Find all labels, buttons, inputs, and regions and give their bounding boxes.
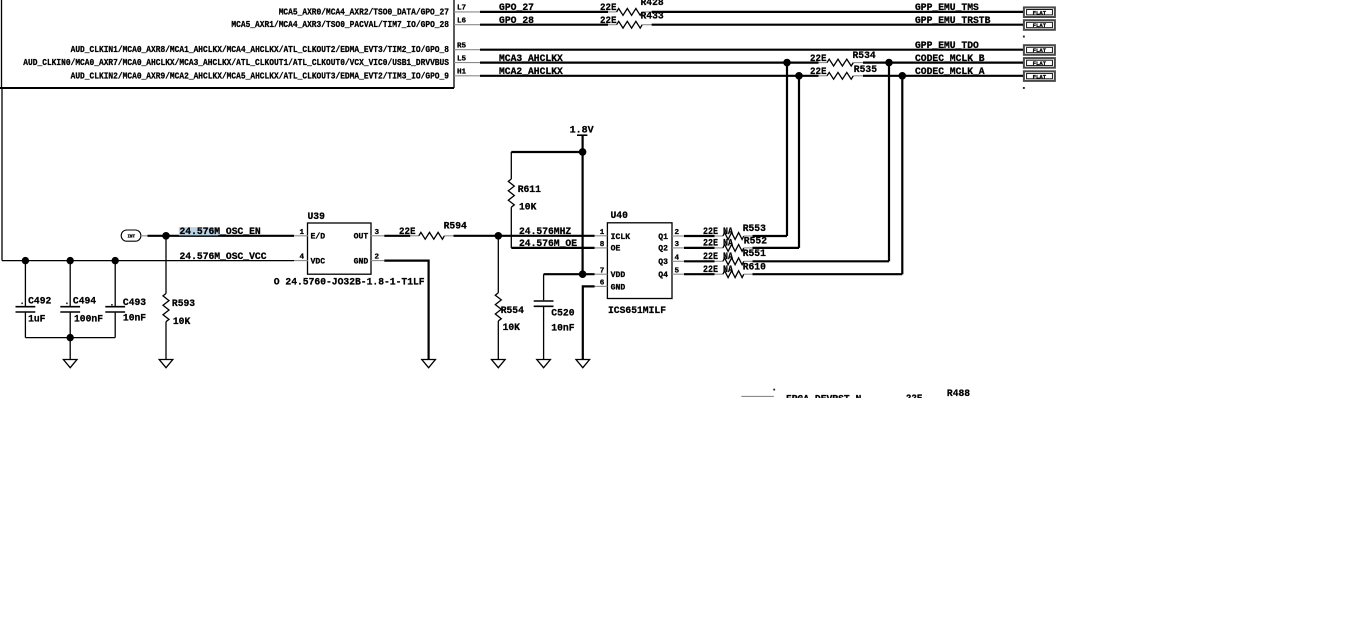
off-page connector FLAT (GPP_EMU_TMS) <box>1024 7 1055 17</box>
clock buffer U40 ICS651MILF <box>607 211 672 298</box>
svg-text:24.576M_OE: 24.576M_OE <box>519 239 577 250</box>
svg-text:R552: R552 <box>744 237 767 248</box>
wire GPO_27 <box>480 3 608 14</box>
wire 24.576M_OSC_EN <box>148 235 295 237</box>
svg-text:M_OSC_EN: M_OSC_EN <box>214 227 260 238</box>
resistor R535 22E <box>819 65 878 79</box>
wire R594 to node <box>454 235 499 237</box>
svg-text:MCA5_AXR1/MCA4_AXR3/TSO0_PACVA: MCA5_AXR1/MCA4_AXR3/TSO0_PACVAL/TIM7_IO/… <box>231 19 449 30</box>
svg-text:MCA3_AHCLKX: MCA3_AHCLKX <box>499 54 563 65</box>
svg-text:C493: C493 <box>123 298 146 309</box>
svg-text:L7: L7 <box>457 5 467 13</box>
capacitor C494 100nF <box>60 261 103 338</box>
svg-text:GPO_27: GPO_27 <box>499 3 534 14</box>
U40 pin 7 <box>595 268 608 276</box>
svg-text:22E: 22E <box>600 3 617 14</box>
svg-text:Q3: Q3 <box>658 258 668 267</box>
wire GPP_EMU_TRSTB <box>652 16 1023 27</box>
svg-text:2: 2 <box>675 229 680 237</box>
ground (R554) <box>492 360 506 368</box>
svg-text:FPGA_DEVRST_N: FPGA_DEVRST_N <box>786 395 861 406</box>
capacitor C520 10nF <box>534 274 575 359</box>
wire R610 out <box>753 273 903 275</box>
svg-text:3: 3 <box>375 229 380 237</box>
ground (caps) <box>63 360 77 368</box>
svg-text:ICLK: ICLK <box>611 233 631 242</box>
svg-text:22E: 22E <box>810 54 827 65</box>
off-page connector INT <box>121 230 147 241</box>
wire GPP_EMU_TDO <box>480 41 1023 52</box>
off-page connector FLAT (GPP_EMU_TDO) <box>1024 45 1055 55</box>
svg-text:U40: U40 <box>611 211 628 222</box>
resistor R593 10K <box>163 236 195 360</box>
svg-text:R554: R554 <box>501 306 524 317</box>
wire VDD row <box>544 273 595 275</box>
resistor R554 10K <box>495 236 524 360</box>
wire 24.576M_OSC_VCC <box>2 260 294 262</box>
svg-text:Q4: Q4 <box>658 271 668 280</box>
wire CODEC_MCLK_B <box>863 54 1023 65</box>
svg-text:FLAT: FLAT <box>1033 47 1047 54</box>
pin R5 <box>454 42 480 50</box>
wire R552 out <box>753 247 800 249</box>
resistor R433 22E <box>600 11 664 28</box>
wire MCA2_AHCLKX <box>480 67 827 78</box>
svg-text:24.576MHZ: 24.576MHZ <box>519 227 571 238</box>
svg-text:R610: R610 <box>743 262 766 273</box>
svg-text:5: 5 <box>675 268 680 276</box>
svg-text:4: 4 <box>675 255 680 263</box>
svg-text:10K: 10K <box>173 317 190 328</box>
clipped row: pin stub <box>741 395 774 397</box>
svg-text:R594: R594 <box>444 221 467 232</box>
svg-text:1uF: 1uF <box>28 315 45 326</box>
resistor R610 22E NA <box>703 262 766 277</box>
resistor R428 22E <box>600 0 664 15</box>
junction VDD <box>579 270 587 278</box>
svg-text:22E: 22E <box>600 16 617 27</box>
junction CODEC_MCLK_A / Q2 <box>795 72 803 80</box>
wire U39 OUT <box>384 235 410 237</box>
junction CODEC_MCLK_B / Q3 <box>885 59 893 67</box>
svg-text:OUT: OUT <box>354 233 369 242</box>
svg-text:FLAT: FLAT <box>1033 9 1047 16</box>
wire MCA3_AHCLKX / CODEC_MCLK_B <box>480 54 827 65</box>
wire rail to ground <box>69 338 71 360</box>
svg-text:R553: R553 <box>743 224 766 235</box>
svg-text:7: 7 <box>600 268 605 276</box>
capacitor C493 10nF <box>105 261 146 338</box>
svg-text:OE: OE <box>611 245 621 254</box>
svg-text:MCA2_AHCLKX: MCA2_AHCLKX <box>499 67 563 78</box>
svg-text:AUD_CLKIN2/MCA0_AXR9/MCA2_AHCL: AUD_CLKIN2/MCA0_AXR9/MCA2_AHCLKX/MCA5_AH… <box>71 70 450 81</box>
svg-text:R593: R593 <box>172 299 195 310</box>
svg-text:GPP_EMU_TRSTB: GPP_EMU_TRSTB <box>915 16 990 27</box>
svg-text:3: 3 <box>675 241 680 249</box>
svg-text:Q2: Q2 <box>658 245 668 254</box>
wire GPP_EMU_TMS <box>652 3 1023 14</box>
wire Q2 <box>684 247 715 249</box>
svg-text:100nF: 100nF <box>74 315 103 326</box>
svg-text:R488: R488 <box>947 389 970 400</box>
wire 24.576MHZ <box>498 227 594 238</box>
svg-text:L6: L6 <box>457 17 467 25</box>
wire cap common rail <box>25 337 115 339</box>
svg-text:H1: H1 <box>457 69 467 77</box>
svg-text:10nF: 10nF <box>123 314 146 325</box>
svg-text:22E: 22E <box>399 227 416 238</box>
U39 pin 3 <box>371 229 385 237</box>
U40 pin 2 <box>672 229 684 237</box>
svg-text:10nF: 10nF <box>551 324 574 335</box>
ground (U39 GND) <box>422 360 436 368</box>
junction VCC / C492 <box>22 257 29 264</box>
svg-text:MCA5_AXR0/MCA4_AXR2/TSO0_DATA/: MCA5_AXR0/MCA4_AXR2/TSO0_DATA/GPO_27 <box>279 6 449 17</box>
U39 pin 2 <box>371 254 385 262</box>
wire R553 out <box>753 235 788 237</box>
resistor R552 22E NA <box>703 237 767 252</box>
svg-text:GND: GND <box>354 258 369 267</box>
junction OSC_EN / R593 <box>162 232 170 240</box>
junction CODEC_MCLK_A / Q4 <box>899 72 907 80</box>
svg-text:O 24.5760-JO32B-1.8-1-T1LF: O 24.5760-JO32B-1.8-1-T1LF <box>274 277 425 288</box>
svg-text:10K: 10K <box>519 202 536 213</box>
oscillator U39 <box>308 212 372 274</box>
wire Q4 drop to CODEC_MCLK_A <box>901 76 903 274</box>
ground (C520) <box>537 360 551 368</box>
period mark <box>1023 36 1025 38</box>
junction 24.576MHZ node <box>495 232 503 240</box>
ground (R593) <box>159 360 173 368</box>
junction VCC / C494 <box>67 257 74 264</box>
svg-text:1: 1 <box>600 229 605 237</box>
svg-text:GPO_28: GPO_28 <box>499 16 534 27</box>
resistor R611 10K pullup <box>508 152 541 248</box>
svg-text:R433: R433 <box>641 11 664 22</box>
svg-text:GND: GND <box>611 283 626 292</box>
svg-text:C492: C492 <box>28 297 51 308</box>
pin L6 <box>454 17 480 25</box>
svg-text:R534: R534 <box>853 51 876 62</box>
period mark <box>1023 87 1025 89</box>
off-page connector FLAT (GPP_EMU_TRSTB) <box>1024 20 1055 30</box>
wire Q3 <box>684 260 715 262</box>
svg-text:R535: R535 <box>854 65 877 76</box>
svg-text:24.576: 24.576 <box>180 227 215 238</box>
wire GPO_28 <box>480 16 608 27</box>
svg-text:GPP_EMU_TMS: GPP_EMU_TMS <box>915 3 979 14</box>
off-page connector FLAT (CODEC_MCLK_B) <box>1024 58 1055 68</box>
junction 1.8V rail <box>579 148 587 156</box>
svg-text:VDD: VDD <box>611 271 626 280</box>
svg-text:8: 8 <box>600 241 605 249</box>
wire Q1 <box>684 235 715 237</box>
wire CODEC_MCLK_A <box>863 67 1023 78</box>
wire U39 GND to ground <box>384 261 428 360</box>
svg-text:CODEC_MCLK_B: CODEC_MCLK_B <box>915 54 985 65</box>
svg-text:2: 2 <box>375 254 380 262</box>
svg-text:CODEC_MCLK_A: CODEC_MCLK_A <box>915 67 985 78</box>
resistor R551 22E NA <box>703 249 766 264</box>
svg-text:R551: R551 <box>743 249 766 260</box>
svg-text:R428: R428 <box>641 0 664 9</box>
U40 pin 3 <box>672 241 684 249</box>
svg-text:6: 6 <box>600 280 605 288</box>
svg-text:U39: U39 <box>308 212 325 223</box>
U39 pin 1 <box>294 229 308 237</box>
svg-text:22E: 22E <box>810 67 827 78</box>
svg-text:L5: L5 <box>457 55 467 63</box>
svg-text:24.576M_OSC_VCC: 24.576M_OSC_VCC <box>180 252 267 263</box>
junction CODEC_MCLK_B / Q1 <box>783 59 791 67</box>
clipped row: mark <box>773 389 775 391</box>
svg-text:1: 1 <box>300 229 305 237</box>
svg-text:R611: R611 <box>518 185 541 196</box>
svg-text:VDC: VDC <box>311 258 326 267</box>
wire Q1 drop to CODEC_MCLK_B <box>786 63 788 236</box>
svg-text:GPP_EMU_TDO: GPP_EMU_TDO <box>915 41 979 52</box>
svg-text:C494: C494 <box>73 297 96 308</box>
junction rail <box>67 334 74 341</box>
U40 pin 5 <box>672 268 684 276</box>
off-page connector FLAT (CODEC_MCLK_A) <box>1024 71 1055 81</box>
svg-text:22E: 22E <box>906 394 923 405</box>
svg-text:INT: INT <box>128 236 136 240</box>
svg-text:AUD_CLKIN1/MCA0_AXR8/MCA1_AHCL: AUD_CLKIN1/MCA0_AXR8/MCA1_AHCLKX/MCA4_AH… <box>71 44 450 55</box>
svg-text:FLAT: FLAT <box>1033 22 1047 29</box>
resistor R534 22E <box>819 51 876 66</box>
wire Q4 <box>684 273 715 275</box>
svg-text:AUD_CLKIN0/MCA0_AXR7/MCA0_AHCL: AUD_CLKIN0/MCA0_AXR7/MCA0_AHCLKX/MCA3_AH… <box>23 57 449 68</box>
svg-text:ICS651MILF: ICS651MILF <box>608 306 666 317</box>
junction VCC / C493 <box>112 257 119 264</box>
pin H1 <box>454 69 480 77</box>
wire Q3 drop to CODEC_MCLK_B <box>888 63 890 262</box>
svg-text:FLAT: FLAT <box>1033 60 1047 67</box>
svg-text:FLAT: FLAT <box>1033 73 1047 80</box>
wire R551 out <box>753 260 890 262</box>
resistor R594 22E <box>399 221 467 239</box>
highlight on 24.576 <box>179 227 219 235</box>
U39 pin 4 <box>294 254 308 262</box>
power 1.8V <box>570 126 594 275</box>
U40 pin 8 <box>595 241 608 249</box>
wire R611 to 1.8V rail <box>511 151 582 153</box>
wire left vertical feed <box>1 88 3 261</box>
svg-text:E/D: E/D <box>311 233 326 242</box>
resistor R553 22E NA <box>703 224 766 240</box>
capacitor C492 1uF <box>16 261 52 338</box>
svg-text:Q1: Q1 <box>658 233 668 242</box>
U40 pin 6 <box>595 280 608 288</box>
svg-text:4: 4 <box>300 254 305 262</box>
net label 24.576M_OSC_EN <box>180 227 261 238</box>
SoC U-block outline (clipped at left/top) <box>0 0 454 88</box>
wire Q2 drop to CODEC_MCLK_A <box>798 76 800 248</box>
U40 pin 4 <box>672 255 684 263</box>
pin L5 <box>454 55 480 63</box>
wire U40 GND to ground <box>583 286 595 359</box>
U40 pin 1 <box>595 229 608 237</box>
svg-text:C520: C520 <box>551 308 574 319</box>
ground (U40 GND) <box>576 360 590 368</box>
wire 24.576M_OE <box>511 239 594 250</box>
pin L7 <box>454 5 480 13</box>
svg-text:10K: 10K <box>503 323 520 334</box>
svg-text:R5: R5 <box>457 42 467 50</box>
